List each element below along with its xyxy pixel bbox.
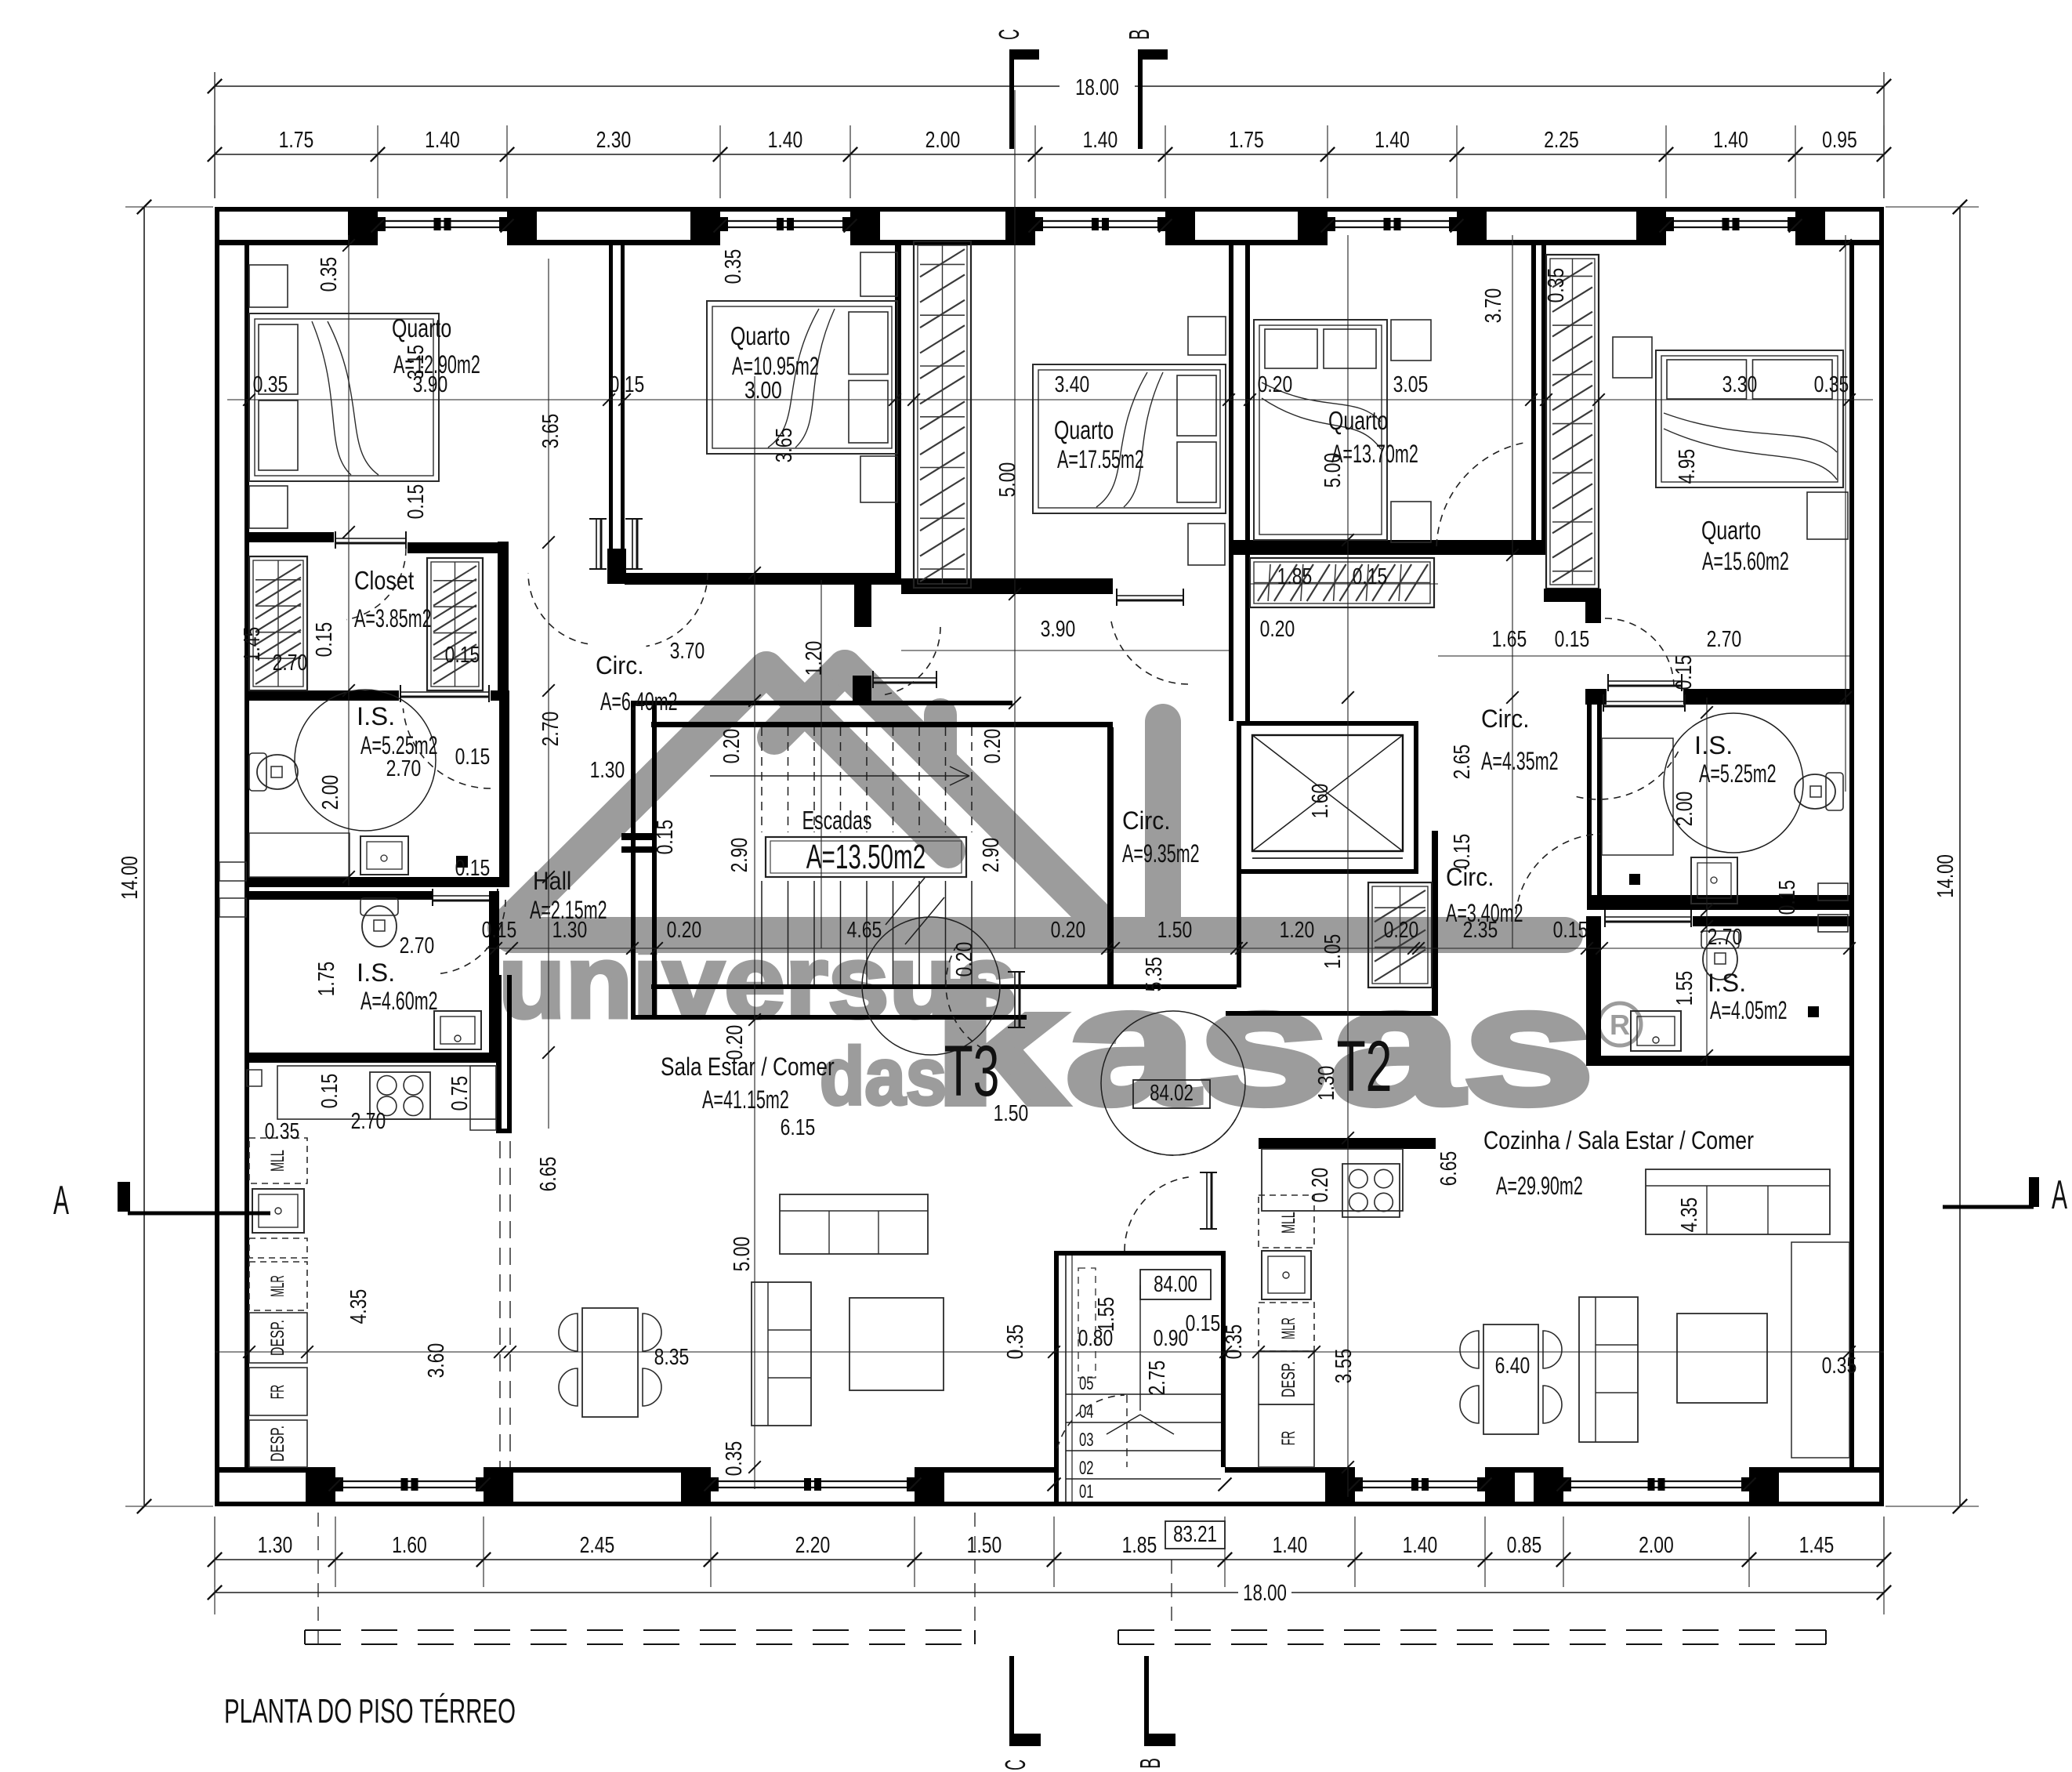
svg-text:Circ.: Circ. [1122, 806, 1171, 835]
svg-text:A=13.50m2: A=13.50m2 [806, 838, 926, 876]
svg-text:0.15: 0.15 [653, 820, 678, 855]
door Quarto4 [1436, 443, 1523, 546]
top wall window piers [348, 207, 378, 245]
stair treads dashed upper [761, 727, 763, 832]
T3 sofa small vertical [752, 1282, 811, 1426]
svg-text:0.15: 0.15 [317, 1074, 342, 1109]
svg-text:0.35: 0.35 [253, 372, 288, 397]
svg-text:3.15: 3.15 [404, 345, 429, 380]
svg-text:DESP.: DESP. [267, 1426, 288, 1462]
svg-text:4.35: 4.35 [346, 1289, 371, 1324]
right dim line 14.00 [1959, 207, 1961, 1506]
svg-text:5.00: 5.00 [995, 462, 1020, 498]
svg-text:3.70: 3.70 [1481, 288, 1506, 324]
svg-text:3.40: 3.40 [1055, 372, 1090, 397]
svg-text:4.65: 4.65 [847, 918, 882, 943]
T2 kitchen counter and hob [1262, 1149, 1403, 1211]
IS525L bottom wall [249, 877, 499, 887]
Quarto5 bottom wall / IS top wall [1585, 689, 1607, 705]
Quarto2 bottom wall [625, 573, 901, 585]
bottom exterior wall outer line [215, 1502, 1884, 1506]
stair core bottom walls [651, 984, 1113, 989]
svg-text:2.45: 2.45 [580, 1533, 615, 1558]
junction tick marks [371, 219, 385, 233]
svg-text:0.15: 0.15 [1555, 627, 1590, 652]
svg-text:2.75: 2.75 [1145, 1361, 1170, 1396]
left dim line 14.00 [143, 207, 145, 1506]
projection vertical dashed ties [317, 1513, 319, 1644]
bottom windows [335, 1480, 484, 1482]
svg-text:I.S.: I.S. [1694, 731, 1733, 759]
svg-text:0.35: 0.35 [722, 1441, 747, 1477]
svg-text:18.00: 18.00 [1075, 75, 1119, 100]
door Quarto1-Closet [335, 538, 406, 539]
svg-text:1.50: 1.50 [994, 1101, 1029, 1126]
closet bottom wall [249, 690, 399, 701]
svg-text:3.30: 3.30 [1722, 372, 1758, 397]
svg-text:A=41.15m2: A=41.15m2 [702, 1085, 789, 1114]
IS405 fixtures [1701, 931, 1739, 948]
svg-text:2.70: 2.70 [538, 712, 563, 747]
elevator cab with X [1252, 735, 1403, 851]
bottom exterior wall inner segments [215, 1467, 335, 1473]
Quarto4 bed [1254, 320, 1387, 540]
entrance door dashes [1126, 1395, 1128, 1467]
svg-text:0.20: 0.20 [719, 729, 744, 764]
closet wardrobes [249, 556, 307, 690]
core hall door tab [621, 833, 657, 840]
T2 side cabinet right wall [1791, 1242, 1849, 1458]
svg-text:2.30: 2.30 [596, 128, 632, 153]
wall between Quarto1 and Quarto2 [609, 245, 613, 549]
svg-text:1.50: 1.50 [967, 1533, 1002, 1558]
svg-text:0.20: 0.20 [1051, 918, 1086, 943]
svg-text:Quarto: Quarto [1328, 406, 1388, 435]
bottom dim chain [215, 1559, 1884, 1560]
svg-text:2.70: 2.70 [351, 1109, 386, 1134]
svg-text:Sala Estar / Comer: Sala Estar / Comer [661, 1053, 835, 1081]
entrance stair treads [1066, 1393, 1221, 1395]
83.21 level label [1165, 1521, 1225, 1549]
svg-text:0.15: 0.15 [455, 856, 491, 881]
section marker C bottom [1009, 1656, 1014, 1746]
svg-text:03: 03 [1079, 1430, 1093, 1451]
svg-text:A=3.85m2: A=3.85m2 [354, 604, 432, 632]
bottom 18.00 line [215, 1592, 1238, 1593]
svg-text:C: C [993, 29, 1025, 40]
svg-text:1.30: 1.30 [552, 918, 588, 943]
svg-text:1.60: 1.60 [392, 1533, 427, 1558]
T2 sofa small vertical [1579, 1297, 1638, 1442]
svg-text:1.50: 1.50 [1157, 918, 1193, 943]
svg-text:2.90: 2.90 [979, 838, 1004, 873]
svg-text:14.00: 14.00 [118, 856, 143, 900]
svg-text:1.20: 1.20 [802, 641, 827, 676]
T3 entry door arc [946, 948, 983, 1049]
svg-text:05: 05 [1079, 1373, 1093, 1394]
Quarto4 right wall [1531, 245, 1536, 555]
IS460 right wall [489, 891, 499, 1063]
svg-text:1.20: 1.20 [1280, 918, 1315, 943]
svg-text:I.S.: I.S. [357, 702, 395, 730]
svg-text:A=4.60m2: A=4.60m2 [360, 987, 438, 1015]
door arcs Circ to Q1 Q2 [528, 573, 588, 644]
watermark registered mark [1599, 1003, 1641, 1045]
stair break marks [886, 878, 925, 925]
T2 entry turning circle [1101, 1011, 1245, 1155]
svg-text:0.15: 0.15 [482, 918, 517, 943]
section marker A right [1943, 1205, 2034, 1209]
svg-text:0.95: 0.95 [1822, 128, 1857, 153]
svg-text:0.15: 0.15 [1353, 564, 1388, 589]
svg-text:Circ.: Circ. [596, 651, 644, 679]
svg-text:3.60: 3.60 [424, 1343, 449, 1379]
svg-text:6.40: 6.40 [1495, 1353, 1530, 1379]
svg-text:5.00: 5.00 [1320, 453, 1346, 488]
IS460 top wall [249, 891, 293, 900]
svg-text:2.00: 2.00 [1639, 1533, 1674, 1558]
svg-text:14.00: 14.00 [1933, 854, 1958, 898]
svg-text:1.30: 1.30 [258, 1533, 293, 1558]
stair treads solid lower [761, 881, 763, 984]
svg-text:C: C [999, 1759, 1031, 1770]
svg-text:01: 01 [1079, 1481, 1093, 1502]
IS525R fixtures [1826, 773, 1843, 810]
svg-text:1.75: 1.75 [279, 128, 314, 153]
svg-text:4.35: 4.35 [1677, 1198, 1702, 1233]
svg-text:83.21: 83.21 [1173, 1522, 1217, 1547]
left exterior wall [215, 207, 219, 1506]
svg-text:Quarto: Quarto [392, 313, 451, 342]
svg-text:18.00: 18.00 [1243, 1581, 1287, 1606]
T2 kitchen column cells [1259, 1195, 1314, 1248]
wardrobe near elevator [1368, 882, 1432, 987]
Quarto1 bed [249, 313, 439, 481]
kitchen counter top run [277, 1066, 496, 1119]
stair direction arrow [710, 775, 969, 777]
svg-text:1.45: 1.45 [240, 627, 265, 662]
svg-text:T2: T2 [1337, 1027, 1393, 1107]
svg-text:84.00: 84.00 [1154, 1272, 1197, 1297]
svg-text:MLR: MLR [1278, 1317, 1299, 1339]
bottom wall window piers [306, 1467, 335, 1506]
top exterior wall inner segments [215, 240, 378, 245]
svg-text:2.70: 2.70 [1708, 925, 1743, 950]
svg-text:2.00: 2.00 [318, 775, 343, 810]
vent shaft right wall [1818, 883, 1848, 900]
IS525R door leaf [1603, 701, 1685, 702]
kitchen dashed boundary to sala [499, 1141, 501, 1467]
svg-text:1.05: 1.05 [1320, 934, 1346, 969]
svg-text:0.15: 0.15 [1775, 880, 1800, 915]
svg-text:0.35: 0.35 [721, 249, 746, 284]
Quarto2 right wall [895, 240, 901, 578]
kitchen duct box [247, 1070, 262, 1086]
svg-text:2.20: 2.20 [795, 1533, 831, 1558]
T2 landing walls [1114, 984, 1237, 989]
svg-text:0.35: 0.35 [1822, 1353, 1857, 1379]
84.02 level label [1133, 1080, 1210, 1108]
svg-text:DESP.: DESP. [1278, 1361, 1299, 1397]
IS525L right wall / hall wall [499, 701, 509, 887]
svg-text:FR: FR [267, 1385, 288, 1399]
section marker B bottom [1144, 1656, 1149, 1746]
Quarto4 bottom wall [1229, 540, 1546, 555]
svg-text:PLANTA DO PISO TÉRREO: PLANTA DO PISO TÉRREO [224, 1692, 516, 1730]
svg-text:0.35: 0.35 [1544, 268, 1569, 303]
interior chain lines [227, 399, 1873, 400]
svg-text:1.85: 1.85 [1122, 1533, 1157, 1558]
svg-text:A=6.40m2: A=6.40m2 [600, 687, 678, 716]
Quarto3 wardrobe [914, 241, 971, 588]
svg-text:0.35: 0.35 [1222, 1324, 1247, 1360]
svg-text:MLR: MLR [267, 1275, 288, 1297]
svg-text:0.15: 0.15 [312, 622, 337, 658]
svg-text:A=4.05m2: A=4.05m2 [1710, 996, 1788, 1024]
84.00 level label [1140, 1270, 1211, 1299]
Quarto3 bed [1033, 364, 1226, 513]
svg-text:0.20: 0.20 [723, 1025, 748, 1060]
svg-text:das: das [820, 1031, 947, 1122]
svg-text:MLL: MLL [1278, 1212, 1299, 1234]
door IS525L leaf [400, 691, 489, 693]
svg-text:Cozinha / Sala Estar / Comer: Cozinha / Sala Estar / Comer [1483, 1126, 1754, 1154]
svg-text:T3: T3 [944, 1031, 1000, 1111]
T3 coffee table [849, 1298, 944, 1390]
elevator shaft walls [1237, 721, 1418, 726]
watermark roof logo [505, 667, 1163, 928]
IS405 door [1605, 916, 1691, 918]
T3 sofa large [780, 1194, 928, 1254]
svg-text:0.20: 0.20 [980, 729, 1005, 764]
svg-text:2.90: 2.90 [727, 838, 752, 873]
door Q3 from corridor [1111, 619, 1189, 684]
corridor door stub [854, 585, 871, 627]
IS525L fixtures [249, 753, 266, 791]
svg-text:0.20: 0.20 [1308, 1168, 1333, 1203]
svg-text:I.S.: I.S. [1708, 969, 1746, 997]
svg-text:6.65: 6.65 [536, 1157, 561, 1192]
svg-text:2.70: 2.70 [273, 650, 308, 676]
svg-text:0.35: 0.35 [1003, 1324, 1028, 1360]
svg-text:3.65: 3.65 [538, 414, 563, 449]
stair up arrow entrance [1139, 1285, 1141, 1411]
T2 sofa large [1646, 1169, 1830, 1234]
svg-text:5.00: 5.00 [730, 1237, 755, 1272]
svg-text:0.15: 0.15 [1672, 655, 1697, 690]
svg-text:kasas: kasas [933, 952, 1595, 1140]
svg-text:0.15: 0.15 [404, 484, 429, 520]
svg-text:0.90: 0.90 [1154, 1326, 1189, 1351]
svg-text:3.05: 3.05 [1393, 372, 1429, 397]
svg-text:Circ.: Circ. [1481, 705, 1530, 733]
dashed stair above [1078, 1268, 1096, 1378]
svg-text:2.70: 2.70 [400, 933, 435, 958]
svg-text:1.30: 1.30 [1314, 1066, 1339, 1101]
svg-text:0.15: 0.15 [1553, 918, 1588, 943]
svg-text:2.00: 2.00 [1672, 792, 1697, 827]
stair core right wall [1107, 727, 1114, 989]
svg-text:0.75: 0.75 [447, 1076, 473, 1111]
T2 entry door [1206, 1172, 1208, 1229]
svg-text:1.40: 1.40 [1273, 1533, 1308, 1558]
svg-text:84.02: 84.02 [1150, 1081, 1194, 1106]
svg-text:A: A [2052, 1172, 2067, 1218]
svg-text:1.55: 1.55 [1672, 971, 1697, 1006]
svg-text:0.20: 0.20 [952, 942, 977, 977]
top dim line 18.00 [215, 85, 1060, 87]
svg-text:2.70: 2.70 [386, 756, 422, 781]
svg-text:0.20: 0.20 [1258, 372, 1293, 397]
svg-text:1.65: 1.65 [1492, 627, 1527, 652]
svg-text:B: B [1123, 29, 1155, 40]
svg-text:0.20: 0.20 [667, 918, 702, 943]
kitchen peninsula wall [496, 975, 502, 1133]
svg-text:1.30: 1.30 [590, 758, 625, 783]
T2 corridor wall right of elevator [1432, 831, 1438, 1016]
watermark baseline bar [494, 917, 1583, 953]
svg-text:0.15: 0.15 [1450, 834, 1475, 869]
svg-text:0.15: 0.15 [1186, 1311, 1221, 1336]
svg-text:1.40: 1.40 [1403, 1533, 1438, 1558]
svg-text:6.65: 6.65 [1436, 1151, 1462, 1187]
svg-text:0.85: 0.85 [1507, 1533, 1542, 1558]
svg-text:Quarto: Quarto [1054, 415, 1114, 444]
T3 dining table [582, 1308, 638, 1417]
svg-text:1.45: 1.45 [1799, 1533, 1835, 1558]
Quarto5 bed [1656, 350, 1843, 487]
entrance vestibule walls [1054, 1251, 1226, 1256]
svg-text:0.20: 0.20 [1384, 918, 1419, 943]
svg-text:3.70: 3.70 [670, 639, 705, 664]
svg-text:1.85: 1.85 [1277, 564, 1313, 589]
svg-text:Hall: Hall [533, 867, 571, 895]
svg-text:0.15: 0.15 [455, 745, 491, 770]
top exterior wall outer line [215, 207, 1884, 212]
svg-text:8.35: 8.35 [654, 1345, 690, 1370]
IS460 fixtures [360, 898, 398, 915]
svg-text:A=5.25m2: A=5.25m2 [360, 731, 438, 759]
projection dashes below building [305, 1629, 975, 1631]
svg-text:5.35: 5.35 [1142, 957, 1167, 992]
stair core top wall [632, 701, 1012, 705]
svg-text:MLL: MLL [267, 1150, 288, 1172]
Quarto5 wardrobe [1546, 255, 1599, 589]
svg-text:FR: FR [1278, 1431, 1299, 1445]
IS460 bottom wall / kitchen top [249, 1053, 499, 1063]
T2 coffee table [1677, 1314, 1767, 1403]
T2 kitchen top wall [1259, 1138, 1436, 1149]
svg-text:3.65: 3.65 [772, 428, 797, 463]
Quarto1 bottom wall [249, 532, 334, 542]
svg-text:0.35: 0.35 [265, 1119, 300, 1144]
IS525R bottom wall [1587, 895, 1849, 910]
svg-text:1.40: 1.40 [425, 128, 460, 153]
svg-text:1.55: 1.55 [1094, 1297, 1119, 1332]
svg-text:3.55: 3.55 [1331, 1349, 1357, 1384]
T3 entry turning circle [862, 917, 1000, 1055]
kitchen column cells along left wall [249, 1138, 307, 1183]
svg-text:I.S.: I.S. [357, 958, 395, 987]
svg-text:2.00: 2.00 [926, 128, 961, 153]
vestibule top door arc [1125, 1177, 1189, 1251]
closet top wall [408, 542, 499, 553]
svg-text:1.40: 1.40 [1375, 128, 1410, 153]
svg-text:A: A [53, 1178, 69, 1223]
IS460 top wall main [293, 891, 433, 900]
IS405 bottom wall [1586, 1056, 1849, 1066]
top windows [378, 220, 507, 222]
svg-text:A=4.35m2: A=4.35m2 [1481, 747, 1559, 775]
svg-text:1.40: 1.40 [1083, 128, 1118, 153]
IS4.05 top wall [1586, 916, 1601, 1066]
svg-text:1.40: 1.40 [1713, 128, 1748, 153]
svg-text:A=15.60m2: A=15.60m2 [1702, 547, 1789, 575]
kitchen sink cabinet west of peninsula [470, 1066, 496, 1130]
T2 dining table [1483, 1324, 1538, 1434]
svg-text:A=5.25m2: A=5.25m2 [1699, 759, 1777, 788]
door Quarto5 [1605, 618, 1674, 685]
svg-text:1.60: 1.60 [1308, 784, 1333, 819]
svg-text:A=17.55m2: A=17.55m2 [1057, 445, 1144, 473]
svg-text:2.70: 2.70 [1707, 627, 1742, 652]
svg-text:Escadas: Escadas [802, 806, 872, 835]
svg-text:Closet: Closet [354, 566, 414, 595]
svg-text:2.35: 2.35 [1463, 918, 1498, 943]
svg-text:6.15: 6.15 [781, 1115, 816, 1140]
svg-text:1.40: 1.40 [768, 128, 803, 153]
closet right wall [498, 542, 509, 701]
svg-text:R: R [1610, 1009, 1630, 1041]
svg-text:2.65: 2.65 [1450, 745, 1475, 780]
svg-text:B: B [1134, 1758, 1166, 1769]
Quarto2 bed [707, 301, 897, 454]
svg-text:0.35: 0.35 [317, 257, 342, 292]
svg-text:0.35: 0.35 [1814, 372, 1849, 397]
svg-text:1.75: 1.75 [1229, 128, 1264, 153]
svg-text:DESP.: DESP. [267, 1320, 288, 1356]
svg-text:Quarto: Quarto [1701, 516, 1761, 545]
stair core left wall [631, 701, 636, 1020]
party wall T3-T2 [1229, 245, 1233, 721]
Quarto3 bottom wall [901, 578, 1113, 594]
svg-text:A=29.90m2: A=29.90m2 [1496, 1172, 1583, 1200]
svg-text:3.90: 3.90 [1041, 617, 1076, 642]
svg-text:02: 02 [1079, 1458, 1093, 1479]
svg-text:Quarto: Quarto [730, 321, 790, 350]
svg-text:1.75: 1.75 [314, 962, 339, 997]
svg-text:4.95: 4.95 [1675, 449, 1700, 484]
svg-text:A=9.35m2: A=9.35m2 [1122, 839, 1200, 868]
svg-text:0.15: 0.15 [445, 643, 480, 668]
svg-text:0.20: 0.20 [1260, 617, 1295, 642]
svg-text:2.25: 2.25 [1544, 128, 1579, 153]
corridor wardrobe horizontal [1250, 558, 1434, 607]
top dim chain [215, 154, 1884, 155]
right exterior wall [1879, 207, 1884, 1506]
IS460 door leaf [433, 895, 498, 897]
IS525R left wall [1587, 698, 1592, 910]
left wall duct boxes [219, 862, 246, 881]
